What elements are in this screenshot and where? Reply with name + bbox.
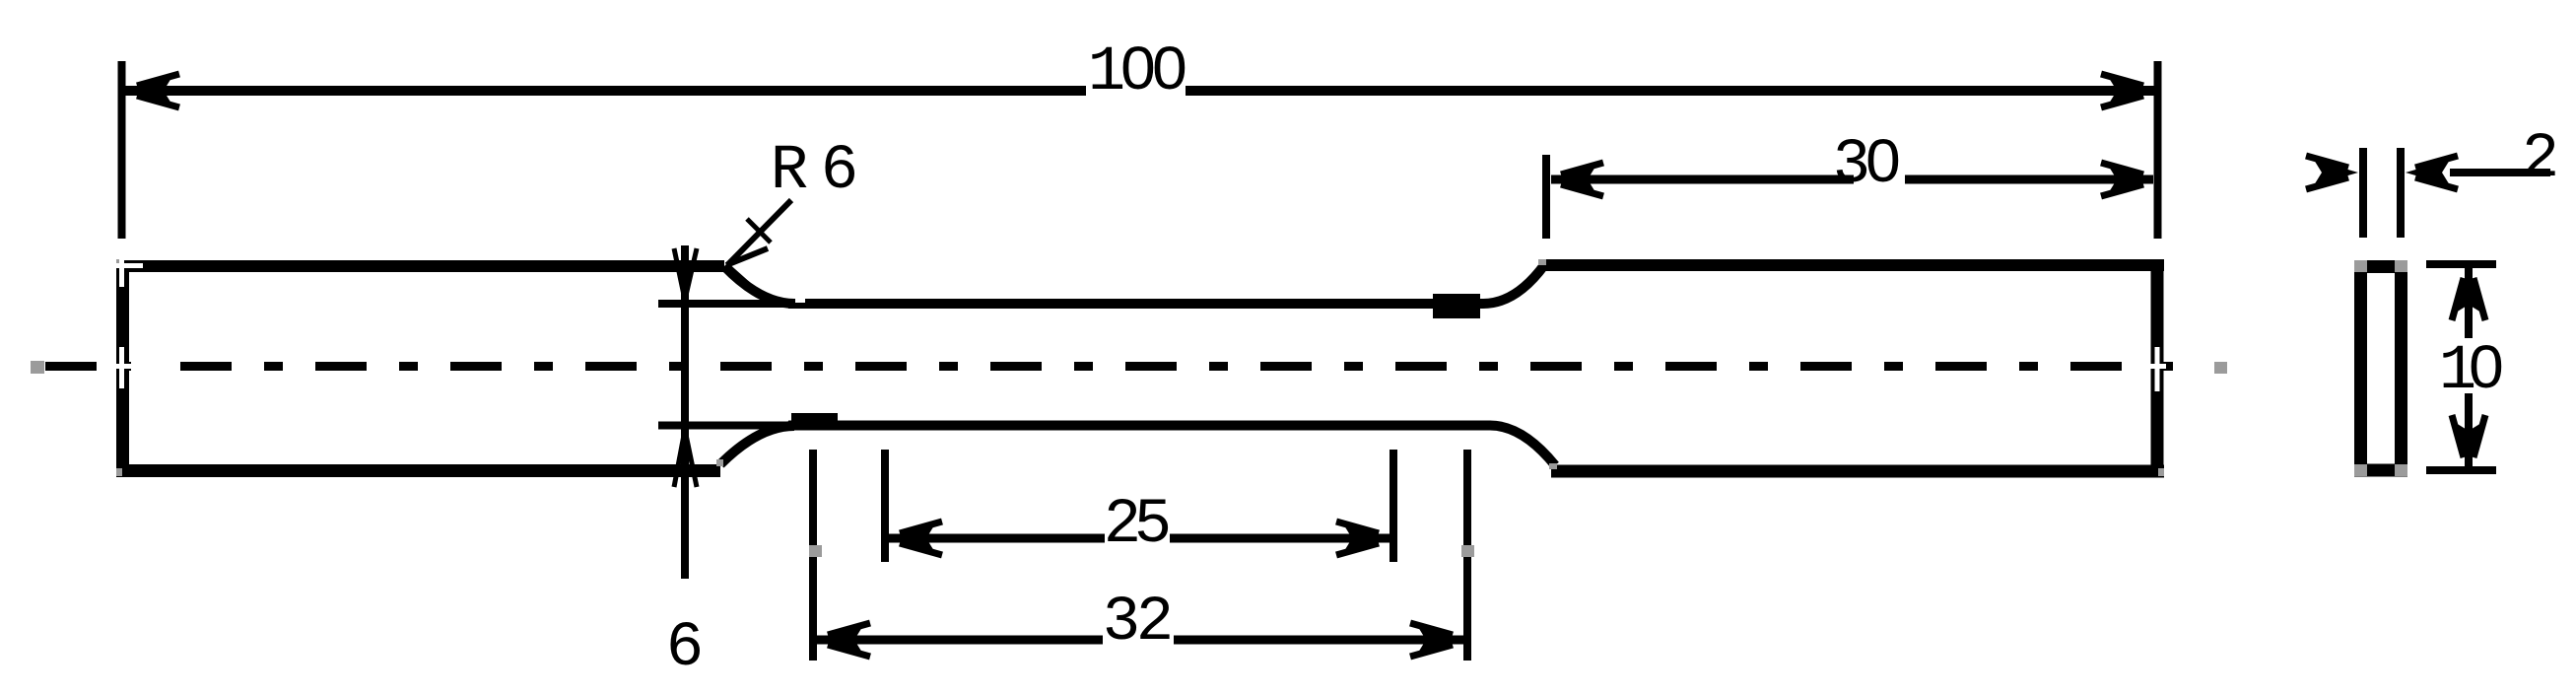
white cross marker top-left corner [110, 253, 143, 287]
dimension 2 [2306, 124, 2559, 238]
svg-text:2: 2 [1136, 588, 1174, 659]
white notch on narrow top edge [795, 298, 805, 303]
top-right fillet R6 [1483, 265, 1544, 304]
svg-text:6: 6 [821, 136, 858, 207]
svg-text:2: 2 [2522, 124, 2559, 195]
svg-text:3: 3 [1103, 588, 1140, 659]
specimen right grip bottom edge [1551, 465, 2164, 478]
dimension 6 [658, 245, 788, 684]
top-left fillet R6 [724, 266, 794, 304]
bottom-right fillet R6 [1490, 426, 1555, 466]
svg-text:5: 5 [1134, 490, 1172, 561]
svg-text:6: 6 [666, 613, 704, 684]
white cross marker left centerline [112, 347, 142, 388]
dimension 32 [809, 450, 1474, 661]
narrow section top edge [788, 299, 1483, 309]
specimen left grip bottom edge [116, 464, 720, 477]
bottom-left fillet R6 [720, 426, 794, 464]
label R 6 with leader [726, 136, 858, 289]
svg-text:R: R [771, 136, 808, 207]
dimension 100 [122, 37, 2158, 239]
specimen right grip top edge [1540, 259, 2164, 271]
dimension 25 [885, 450, 1393, 562]
gauge mark blob on top edge [1433, 294, 1480, 318]
side view rectangle [2354, 260, 2407, 476]
narrow section bottom edge [788, 421, 1490, 431]
specimen left edge [116, 260, 129, 477]
dimension 10 [2426, 264, 2505, 470]
centerline [31, 359, 2227, 374]
corner gray markers [116, 259, 2164, 476]
dimension 30 [1546, 130, 2153, 239]
gauge mark blob on bottom edge [791, 413, 838, 427]
specimen right edge [2151, 259, 2164, 477]
white cross marker right centerline [2148, 347, 2166, 391]
specimen left grip top edge [116, 260, 724, 272]
